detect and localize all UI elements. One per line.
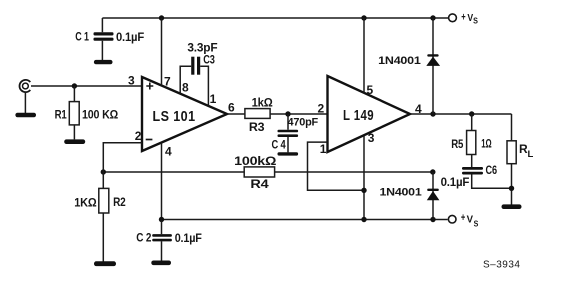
ground (R1) <box>64 139 85 144</box>
svg-text:V: V <box>467 213 473 225</box>
svg-text:2: 2 <box>135 129 142 143</box>
svg-text:1Ω: 1Ω <box>481 136 492 150</box>
svg-text:5: 5 <box>367 83 374 97</box>
svg-text:1KΩ: 1KΩ <box>74 195 97 209</box>
svg-text:0.1µF: 0.1µF <box>175 231 202 245</box>
svg-text:3: 3 <box>128 74 135 88</box>
svg-text:S: S <box>473 16 478 26</box>
node R4 line right <box>430 169 435 174</box>
input terminal <box>20 80 31 92</box>
svg-text:0.1µF: 0.1µF <box>116 30 144 44</box>
svg-text:4: 4 <box>165 144 172 158</box>
svg-text:LS 101: LS 101 <box>153 108 196 125</box>
wire pin 7 to top rail <box>161 18 163 86</box>
terminal +Vs bottom <box>448 215 456 223</box>
wire pin 8 / C3 loop left <box>180 66 191 94</box>
wire top supply rail <box>102 17 448 19</box>
svg-text:C 1: C 1 <box>75 30 89 44</box>
svg-text:6: 6 <box>228 100 235 114</box>
label RL <box>519 142 534 160</box>
node top rail / pin5 column <box>361 15 366 20</box>
node top rail / pin7 column <box>159 15 164 20</box>
resistor R4 <box>244 167 274 177</box>
capacitor C1 <box>94 18 114 61</box>
op-amp U2 L 149 <box>328 76 411 152</box>
svg-text:R1: R1 <box>55 108 67 122</box>
svg-text:R4: R4 <box>250 177 269 191</box>
minus sign (pin 2 input) <box>146 139 153 141</box>
ground (RL) <box>502 204 522 209</box>
svg-text:R2: R2 <box>113 195 126 209</box>
node C6 / RL bottom <box>509 186 514 191</box>
diode D1 1N4001 top <box>426 18 440 114</box>
resistor R5 <box>467 114 476 155</box>
resistor RL <box>507 114 516 205</box>
svg-text:100 KΩ: 100 KΩ <box>82 107 119 121</box>
label +Vs top <box>461 12 478 26</box>
ground (C2) <box>151 261 171 266</box>
svg-text:8: 8 <box>182 80 189 94</box>
wire input to pin 3 <box>31 85 142 87</box>
resistor R2 <box>99 188 109 261</box>
wire L149 output to RL <box>410 113 512 115</box>
node C4 top <box>285 111 290 116</box>
wire pin 4 down to bottom rail <box>161 142 163 219</box>
wire pin 3 down to bottom rail <box>363 136 365 220</box>
svg-text:1kΩ: 1kΩ <box>252 95 274 109</box>
svg-text:1: 1 <box>210 92 217 106</box>
resistor R1 <box>69 86 79 139</box>
op-amp U1 LS 101 <box>142 77 227 151</box>
wire LS101 output to L149 pin 2 <box>227 113 328 115</box>
svg-text:7: 7 <box>164 75 171 89</box>
capacitor C4 <box>278 114 299 152</box>
wire C3 right to pin 1 <box>200 66 208 106</box>
svg-text:0.1µF: 0.1µF <box>441 175 470 189</box>
capacitor C3 <box>191 57 200 75</box>
svg-text:C3: C3 <box>203 53 215 67</box>
resistor R3 <box>245 109 270 119</box>
ground (input) <box>15 92 36 117</box>
svg-text:2: 2 <box>318 101 325 115</box>
ground (C1) <box>94 60 113 64</box>
wire pin 5 to top rail <box>363 18 365 93</box>
wire pin 1 of L149 to pin 3 <box>308 142 365 190</box>
svg-text:1: 1 <box>320 142 327 156</box>
node output / diode column <box>430 111 435 116</box>
capacitor C6 <box>462 155 512 189</box>
node bottom rail / diode column <box>430 217 435 222</box>
svg-text:100kΩ: 100kΩ <box>234 154 277 168</box>
ground (R2) <box>94 261 116 266</box>
svg-text:S: S <box>474 218 479 228</box>
plus sign (pin 3 input) <box>146 83 153 90</box>
node R4 line left <box>101 169 106 174</box>
svg-text:S–3934: S–3934 <box>483 259 520 270</box>
svg-text:C6: C6 <box>486 163 498 177</box>
feedback wire R4 line <box>103 171 433 173</box>
wire LS101 pin 2 to node <box>103 143 142 189</box>
svg-text:470pF: 470pF <box>288 117 319 129</box>
svg-text:1N4001: 1N4001 <box>378 55 420 67</box>
terminal +Vs top <box>449 14 457 22</box>
node R5 top <box>469 111 474 116</box>
node bottom rail / C2 <box>159 217 164 222</box>
capacitor C2 <box>152 220 172 261</box>
svg-text:R3: R3 <box>249 120 265 134</box>
svg-text:3: 3 <box>368 131 375 145</box>
svg-text:+: + <box>461 212 465 224</box>
svg-text:C 2: C 2 <box>136 231 151 245</box>
node top rail / diode column <box>430 15 435 20</box>
svg-text:1N4001: 1N4001 <box>380 186 422 198</box>
node bottom rail / pin3 column <box>361 217 366 222</box>
svg-text:C 4: C 4 <box>272 138 286 152</box>
svg-text:L: L <box>528 149 534 160</box>
wire bottom supply rail <box>162 219 448 221</box>
ground (C4) <box>278 152 299 155</box>
node R1 top <box>72 83 77 88</box>
svg-text:R5: R5 <box>451 137 463 151</box>
label +Vs bottom <box>461 212 479 228</box>
svg-text:+: + <box>461 12 465 24</box>
node pin1/pin3 join <box>361 188 366 193</box>
diode D2 1N4001 bottom <box>427 172 440 220</box>
svg-text:L 149: L 149 <box>343 108 374 124</box>
